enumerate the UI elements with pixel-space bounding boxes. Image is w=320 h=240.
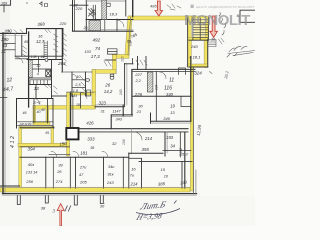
yellow room rect top [20, 127, 54, 129]
svg-text:20 42: 20 42 [32, 101, 41, 105]
tick marks west wall [0, 97, 7, 99]
vertical x150.5 [150, 113, 152, 123]
red arrow top-centre [155, 1, 162, 16]
door arc below wall y132 [134, 132, 142, 140]
wall y96 [52, 95, 67, 97]
left small rooms verticals [33, 99, 35, 124]
wall y60 x105-115 [105, 59, 116, 61]
svg-text:486: 486 [150, 4, 157, 9]
wall y153 [129, 152, 163, 154]
svg-text:34и: 34и [108, 165, 115, 169]
vertical x111 [110, 115, 112, 129]
svg-text:1,8: 1,8 [73, 89, 79, 93]
svg-text:368: 368 [37, 21, 45, 26]
south step wall left [0, 185, 20, 187]
slanted 11 mark [65, 206, 71, 212]
hatched wall centre room1 [147, 72, 153, 92]
svg-text:220: 220 [75, 6, 83, 11]
svg-text:103: 103 [85, 50, 92, 54]
top-middle inner vertical x95 [95, 19, 97, 31]
svg-text:310: 310 [120, 56, 124, 62]
svg-text:133 14: 133 14 [26, 171, 38, 175]
bush scribbles [227, 46, 255, 57]
svg-text:183: 183 [72, 94, 78, 98]
svg-text:290: 290 [0, 37, 9, 42]
left room bottom centre [141, 159, 143, 189]
svg-text:343: 343 [116, 117, 123, 121]
yellow small room bottom [33, 122, 50, 125]
svg-text:40з: 40з [28, 162, 34, 167]
svg-text:31: 31 [1, 49, 6, 54]
svg-text:355: 355 [142, 147, 150, 152]
top-left corner box [0, 0, 11, 5]
vertical x124.6 corridor west double [124, 64, 126, 107]
svg-text:13: 13 [34, 86, 39, 91]
hatch ticks x104-111 y61 [104, 61, 111, 66]
svg-text:181: 181 [80, 150, 88, 155]
svg-text:20: 20 [83, 26, 88, 30]
svg-text:30: 30 [100, 204, 105, 209]
svg-text:74: 74 [95, 46, 101, 51]
svg-text:26: 26 [104, 83, 110, 88]
north wall left block [27, 28, 64, 30]
top-middle block west double wall [72, 0, 74, 31]
yellow room240 bottom [188, 64, 208, 67]
hatched wall top-middle [102, 0, 107, 20]
svg-text:34: 34 [170, 144, 175, 149]
wall y78 [29, 77, 52, 79]
door arc yellow room [81, 93, 87, 99]
small box near x107 [108, 49, 118, 54]
scribble blob [89, 9, 96, 18]
svg-text:31: 31 [101, 110, 105, 114]
svg-text:323: 323 [99, 101, 107, 106]
svg-text:340: 340 [163, 116, 170, 121]
svg-text:226: 226 [134, 92, 143, 97]
yellow path group [0, 16, 209, 192]
svg-text:16: 16 [131, 167, 136, 172]
svg-text:ЦЕНТР НЕДВИЖИМОСТИ МОНОЛИТ: ЦЕНТР НЕДВИЖИМОСТИ МОНОЛИТ [196, 5, 255, 9]
walls [0, 0, 255, 205]
vertical x63 [62, 29, 64, 56]
svg-text:412: 412 [10, 134, 16, 148]
svg-text:17,3: 17,3 [91, 54, 100, 59]
yellow stair right vertical [206, 17, 209, 41]
circle symbol [45, 59, 48, 62]
top-middle inner vertical x117 [116, 19, 118, 31]
wall y115 [112, 114, 133, 116]
svg-text:12,7: 12,7 [36, 39, 45, 44]
svg-text:426: 426 [86, 120, 94, 125]
toilet [110, 74, 114, 76]
svg-text:27и: 27и [79, 166, 87, 170]
svg-text:4: 4 [37, 72, 39, 76]
top-middle block south wall [73, 30, 134, 32]
svg-text:13: 13 [3, 43, 8, 48]
white room bottom line [20, 146, 70, 148]
svg-text:240 42 ВС: 240 42 ВС [19, 122, 32, 126]
inner vertical x28.5 [28, 32, 30, 107]
svg-text:234: 234 [155, 84, 159, 91]
yellow rooms inner wall [80, 93, 82, 108]
hatch ticks wall x62 [63, 33, 67, 66]
svg-text:30: 30 [138, 104, 143, 109]
svg-text:106: 106 [122, 139, 126, 145]
north wall step [26, 29, 28, 34]
yellow stair interior tint [194, 18, 207, 39]
closet divider room2 [181, 96, 191, 106]
svg-text:390: 390 [4, 28, 12, 34]
small tick right of room240 [210, 72, 213, 74]
vertical x184.8 [184, 132, 186, 188]
handwriting bottom [53, 200, 168, 222]
hatch ticks wall x56 [54, 34, 59, 52]
hatch ticks centre [136, 60, 147, 65]
wall y161.5 [139, 161, 192, 163]
vestibule top wall y63.8 [125, 63, 133, 65]
wall y84.5 [29, 84, 52, 86]
top-middle box top-left [70, 4, 88, 6]
svg-text:150: 150 [59, 141, 67, 147]
vertical x51.5 [51, 60, 53, 99]
small rungs below arrow2 [208, 40, 216, 47]
svg-text:15: 15 [37, 64, 41, 68]
vertical x62 [61, 29, 63, 72]
yellow drop x93 [92, 70, 96, 95]
X window box [46, 70, 51, 77]
underline flourish [136, 201, 180, 215]
wall y72 under yellow [62, 71, 93, 73]
door arc room10 [72, 74, 77, 79]
svg-text:40: 40 [41, 108, 45, 112]
sink fixtures left [86, 79, 90, 82]
svg-text:116: 116 [164, 86, 172, 92]
left small rooms bottom rows [18, 121, 54, 123]
svg-text:23: 23 [136, 110, 142, 114]
svg-text:4 18,1: 4 18,1 [189, 54, 200, 59]
yellow left drop [125, 16, 133, 56]
svg-text:11: 11 [169, 78, 174, 84]
central block top double wall [133, 68, 195, 70]
svg-text:94: 94 [41, 55, 45, 59]
radiator boxes row [30, 80, 52, 85]
corridor wall y107 [95, 106, 124, 108]
hatch ticks y86 [45, 85, 58, 94]
svg-text:38: 38 [41, 206, 46, 211]
rooms 10-25-18 verticals [71, 72, 73, 96]
svg-text:MONOLIT: MONOLIT [184, 12, 251, 29]
yellow vertical x68 [67, 92, 70, 156]
svg-text:91к: 91к [108, 173, 114, 177]
second line x131 [130, 129, 132, 154]
svg-text:46: 46 [23, 111, 27, 115]
svg-text:227: 227 [134, 72, 142, 77]
watermark logo square [191, 5, 194, 8]
stairs top-right frame [193, 18, 208, 41]
east outer wall x193 [192, 67, 194, 194]
door arc room2 top [160, 72, 167, 79]
flag symbol top [40, 2, 48, 7]
stair room divider y40 [189, 39, 209, 41]
hatched wall left [29, 60, 33, 78]
scribbles above top band [167, 4, 181, 10]
stubs below south wall [17, 196, 20, 205]
svg-text:18: 18 [76, 103, 80, 107]
vertical x123 [122, 105, 124, 116]
ticks above ladder [45, 30, 51, 33]
svg-text:263: 263 [57, 61, 66, 66]
yellow room240 top [188, 38, 208, 41]
central inner vertical x156 [155, 72, 157, 122]
east block wall x191 [190, 57, 192, 122]
yellow room240 right vertical [204, 40, 207, 68]
yellow band y107 [33, 106, 95, 110]
notch window bay [179, 68, 186, 75]
svg-text:385: 385 [158, 181, 166, 187]
dark line within yellow drop [128, 17, 131, 55]
red arrow top-right [210, 16, 218, 37]
top-middle inner h wall [86, 19, 133, 21]
south facade wall [3, 193, 197, 195]
white room top line [20, 127, 54, 129]
strong vertical x70.5 [70, 92, 72, 128]
left block inner h y64 [33, 64, 39, 66]
svg-text:274: 274 [55, 179, 63, 184]
long double wall y129 [78, 128, 188, 130]
svg-text:32: 32 [112, 141, 117, 146]
bottom row verticals [45, 157, 47, 188]
narrow room east [179, 132, 181, 157]
svg-text:240: 240 [190, 44, 198, 49]
ticks near arrow2 [219, 38, 225, 44]
svg-text:256: 256 [25, 179, 33, 184]
north wall west part [0, 32, 27, 34]
small rooms west strip [14, 33, 16, 57]
svg-text:220: 220 [59, 21, 67, 26]
stub verticals above [137, 57, 139, 70]
svg-text:65: 65 [46, 131, 50, 135]
tiny dot [26, 2, 27, 3]
svg-text:492: 492 [93, 38, 101, 43]
vertical x165 double [164, 132, 166, 156]
hatched block below [89, 21, 101, 31]
svg-text:169: 169 [1, 2, 7, 6]
yellow room rect bottom [18, 143, 70, 146]
room240 right wall [207, 40, 209, 68]
svg-text:214: 214 [130, 182, 139, 187]
west wall [2, 33, 4, 194]
vestibule side x132.5 [132, 59, 134, 64]
narrow ladder [44, 41, 48, 58]
wall y121 double [151, 120, 192, 122]
left block inner vertical x38 [38, 57, 40, 72]
wall y56 [15, 55, 63, 57]
door arc x33 [34, 99, 40, 105]
svg-text:15: 15 [161, 167, 166, 172]
svg-text:39: 39 [58, 163, 63, 168]
top-middle block inner vertical [85, 0, 87, 31]
yellow top band [128, 16, 207, 20]
top-right corner structure [240, 10, 255, 22]
svg-text:40: 40 [37, 110, 41, 114]
wall y96.3 [133, 95, 192, 97]
svg-text:340: 340 [166, 92, 174, 97]
yellow jog [113, 55, 130, 59]
cross wall x36 [35, 85, 37, 99]
door arc room12 [16, 57, 23, 63]
hatch ticks x22-28 [23, 46, 27, 57]
curly marks right of arrow2 [219, 13, 226, 36]
top-middle small verticals [93, 5, 105, 31]
yellow bottom band [0, 188, 190, 192]
shaft thick box [66, 128, 78, 139]
yellow small room v1 [33, 106, 36, 125]
svg-text:12: 12 [6, 77, 12, 84]
svg-text:214: 214 [144, 136, 153, 141]
svg-text:5152: 5152 [179, 148, 183, 156]
yellow small room v2 [46, 106, 49, 125]
svg-text:240: 240 [119, 89, 123, 96]
yellow horiz y71 [92, 70, 116, 74]
central corridor right wall [131, 70, 133, 116]
thin line above bottom yellow band [0, 186, 190, 188]
faint scan shading left [0, 0, 10, 226]
wall y59.5 [27, 59, 62, 61]
svg-text:333: 333 [87, 137, 95, 142]
svg-text:243: 243 [106, 180, 114, 185]
svg-text:193: 193 [166, 135, 174, 140]
red arrow bottom-left up [57, 204, 64, 226]
room240 bottom wall [189, 66, 208, 68]
svg-text:18,3: 18,3 [110, 12, 119, 17]
vertical x182 [181, 162, 183, 188]
yellow room rect right [51, 127, 54, 145]
wall y69 [29, 68, 52, 70]
svg-text:205: 205 [79, 180, 87, 185]
wall y157 [20, 156, 129, 158]
svg-text:13: 13 [170, 110, 175, 115]
stair west black wall [187, 18, 189, 68]
svg-text:2,2: 2,2 [135, 79, 142, 83]
svg-text:158: 158 [31, 55, 37, 59]
svg-text:394: 394 [28, 146, 36, 151]
svg-text:14,2: 14,2 [104, 89, 113, 94]
top-middle top edge [86, 0, 125, 2]
svg-text:1147: 1147 [112, 110, 121, 114]
yellow rect rooms right [92, 92, 96, 109]
left small rooms block top [18, 98, 54, 100]
svg-text:44,7: 44,7 [3, 86, 15, 93]
svg-text:324: 324 [194, 71, 202, 76]
vertical x56 hatch wall [55, 29, 57, 60]
top-middle door arc [117, 20, 124, 27]
yellow stair left vertical [188, 16, 191, 67]
box symbol x107 [107, 3, 110, 6]
yellow rect rooms top [67, 92, 96, 95]
wall y150 strip top [163, 149, 191, 151]
svg-text:26: 26 [56, 170, 62, 174]
stairs rungs [193, 20, 208, 38]
yellow drop x113 [113, 55, 117, 74]
ticks on north wall left [8, 30, 23, 33]
vertical x21.8 [21, 36, 23, 57]
svg-text:19: 19 [170, 104, 175, 109]
door arcs bottom row [51, 151, 108, 157]
top-middle east double wall [125, 0, 127, 16]
yellow left vertical [19, 127, 22, 190]
wall y154 left part [49, 153, 70, 155]
yellow east long vertical [190, 67, 193, 191]
svg-text:2,5: 2,5 [74, 83, 81, 87]
